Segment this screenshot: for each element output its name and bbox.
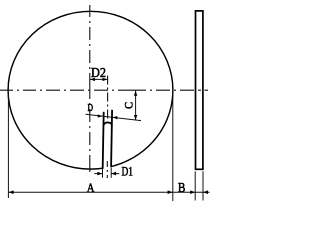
B extension left (194, 171, 196, 200)
D dimension line / C bottom extension (sloped) (86, 114, 142, 120)
D arrow left (tip at slot left wall) (98, 114, 103, 117)
D1 extension right (110, 168, 112, 178)
D1 extension left (102, 169, 104, 178)
D arrow right (tip at slot right wall) (112, 116, 117, 119)
D1 dimension line left (94, 173, 102, 175)
vertical centerline (89, 5, 91, 172)
D1 arrow right (tip at right ext) (111, 172, 116, 176)
A dimension line (8, 191, 172, 193)
A arrow left (8, 190, 13, 194)
D1 dimension line right (111, 173, 119, 175)
disc outline (front view ellipse) (8, 11, 173, 169)
C arrow up (134, 91, 137, 96)
B dimension line (173, 191, 210, 193)
B arrow right-outside (tip at right ext) (203, 190, 208, 194)
svg-text:D1: D1 (122, 163, 134, 178)
svg-text:D2: D2 (91, 66, 106, 81)
C dimension line (135, 90, 137, 120)
svg-text:D: D (88, 102, 94, 114)
side view rectangle (196, 11, 203, 169)
svg-text:A: A (87, 180, 95, 195)
C arrow down (134, 115, 137, 120)
svg-text:B: B (178, 181, 186, 196)
horizontal centerline (0, 89, 208, 91)
D1 arrow left (tip at left ext) (97, 172, 102, 176)
D2 arrow left (90, 78, 95, 81)
svg-text:C: C (121, 102, 135, 109)
slot dome (rounded top) (104, 122, 113, 125)
slot centerline upper (107, 76, 109, 120)
slot right wall (111, 110, 112, 167)
B extension right (202, 171, 204, 200)
slot rim gap (white-out of rim inside slot) (104, 162, 111, 173)
A extension right (172, 92, 174, 202)
D2 dimension line (90, 78, 108, 80)
slot centerline lower (106, 161, 108, 178)
A extension left (7, 93, 9, 198)
B arrow left-outside (tip at left ext) (190, 190, 195, 194)
slot left wall (103, 112, 104, 168)
A arrow right (168, 190, 173, 194)
D2 arrow right (103, 78, 108, 81)
